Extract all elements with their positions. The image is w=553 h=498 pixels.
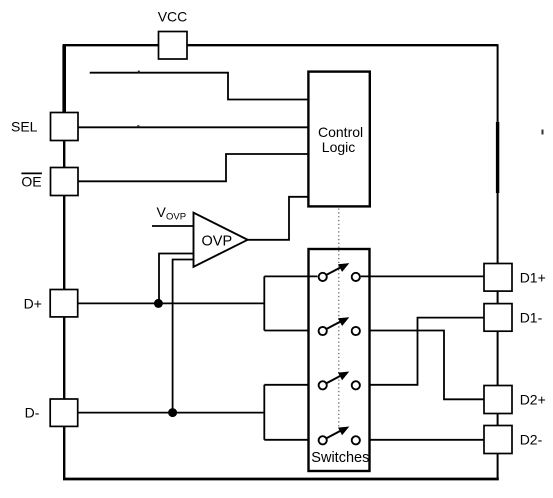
wire OE to Control Logic <box>78 154 308 181</box>
speck artifact right margin <box>542 130 544 135</box>
pin OE box <box>51 168 79 196</box>
pin VCC box <box>159 32 188 60</box>
wire switch row1 to D1+ <box>361 275 484 277</box>
switch SW4 pole circle <box>319 436 327 444</box>
switch SW2 arrowhead <box>338 317 349 326</box>
wire D- tap up to OVP <box>173 260 194 413</box>
switch SW3 arrowhead <box>338 372 349 381</box>
svg-text:SEL: SEL <box>11 118 38 134</box>
svg-text:D-: D- <box>25 405 40 421</box>
pin D+ box <box>50 290 77 317</box>
switch SW4 throw circle <box>352 436 360 444</box>
pin D1+ box <box>484 264 512 292</box>
svg-text:Logic: Logic <box>322 139 355 155</box>
wire D+ tap up to OVP <box>159 254 194 304</box>
outer border right thick segment <box>496 122 499 193</box>
wire D+ branch bracket to switch rows 1-2 <box>264 276 317 330</box>
wire D+ horizontal net <box>78 302 264 304</box>
OE overline <box>21 172 42 174</box>
outer border left thick segment <box>62 45 66 114</box>
svg-text:Switches: Switches <box>311 450 369 466</box>
svg-text:OVP: OVP <box>202 233 233 249</box>
switch SW4 lever <box>327 430 342 438</box>
wire OVP output to Control Logic <box>248 197 309 240</box>
svg-text:Control: Control <box>318 124 363 140</box>
svg-text:D2+: D2+ <box>520 392 546 408</box>
svg-text:D2-: D2- <box>520 432 543 448</box>
svg-text:D+: D+ <box>24 295 42 311</box>
svg-text:OE: OE <box>21 174 41 190</box>
switch SW3 pole circle <box>319 381 327 389</box>
pin D2- box <box>484 426 512 454</box>
control logic block U1 <box>308 72 369 207</box>
dashed control line from Control Logic into Switches <box>338 209 340 430</box>
outer border bottom <box>63 478 499 481</box>
switch SW2 pole circle <box>319 327 327 335</box>
pin D2+ box <box>484 386 512 414</box>
outer border top <box>63 44 498 46</box>
switch SW3 lever <box>327 375 342 383</box>
wire VOVP input <box>152 225 194 227</box>
junction dot on D- net <box>168 408 177 417</box>
switch SW4 arrowhead <box>338 427 349 436</box>
speck artifact on W1 <box>138 71 140 73</box>
svg-text:D1-: D1- <box>520 309 543 325</box>
switch SW1 row1 stubs <box>309 275 370 277</box>
wire switch row4 to D2- <box>361 439 484 441</box>
wire D- branch bracket to switch rows 3-4 <box>264 385 317 440</box>
switch SW1 throw circle <box>352 273 360 281</box>
op-amp OVP comparator triangle <box>194 213 248 267</box>
pin D1- box <box>484 304 512 332</box>
svg-text:OVP: OVP <box>166 212 186 223</box>
svg-text:V: V <box>157 204 167 220</box>
wire switch row3 to D1- <box>361 318 484 385</box>
switch SW3 throw circle <box>352 381 360 389</box>
switch SW1 pole circle <box>319 273 327 281</box>
speck artifact on SEL wire <box>137 125 139 127</box>
switch SW2 lever <box>327 321 342 329</box>
junction dot on D+ net <box>154 299 163 308</box>
wire W1 internal top feed into Control Logic <box>90 73 309 100</box>
wire SEL to Control Logic <box>78 126 308 128</box>
svg-text:VCC: VCC <box>158 9 188 25</box>
switches block <box>309 249 370 471</box>
wire switch row2 to D2+ <box>361 331 484 400</box>
switch SW1 arrowhead <box>338 263 349 272</box>
outer border left <box>63 44 65 479</box>
svg-text:D1+: D1+ <box>520 269 546 285</box>
outer border right <box>497 44 499 479</box>
switch SW1 lever <box>327 267 342 275</box>
pin SEL box <box>51 113 79 141</box>
switch SW2 throw circle <box>352 327 360 335</box>
wire D- horizontal net <box>78 412 264 414</box>
pin D- box <box>50 399 77 426</box>
